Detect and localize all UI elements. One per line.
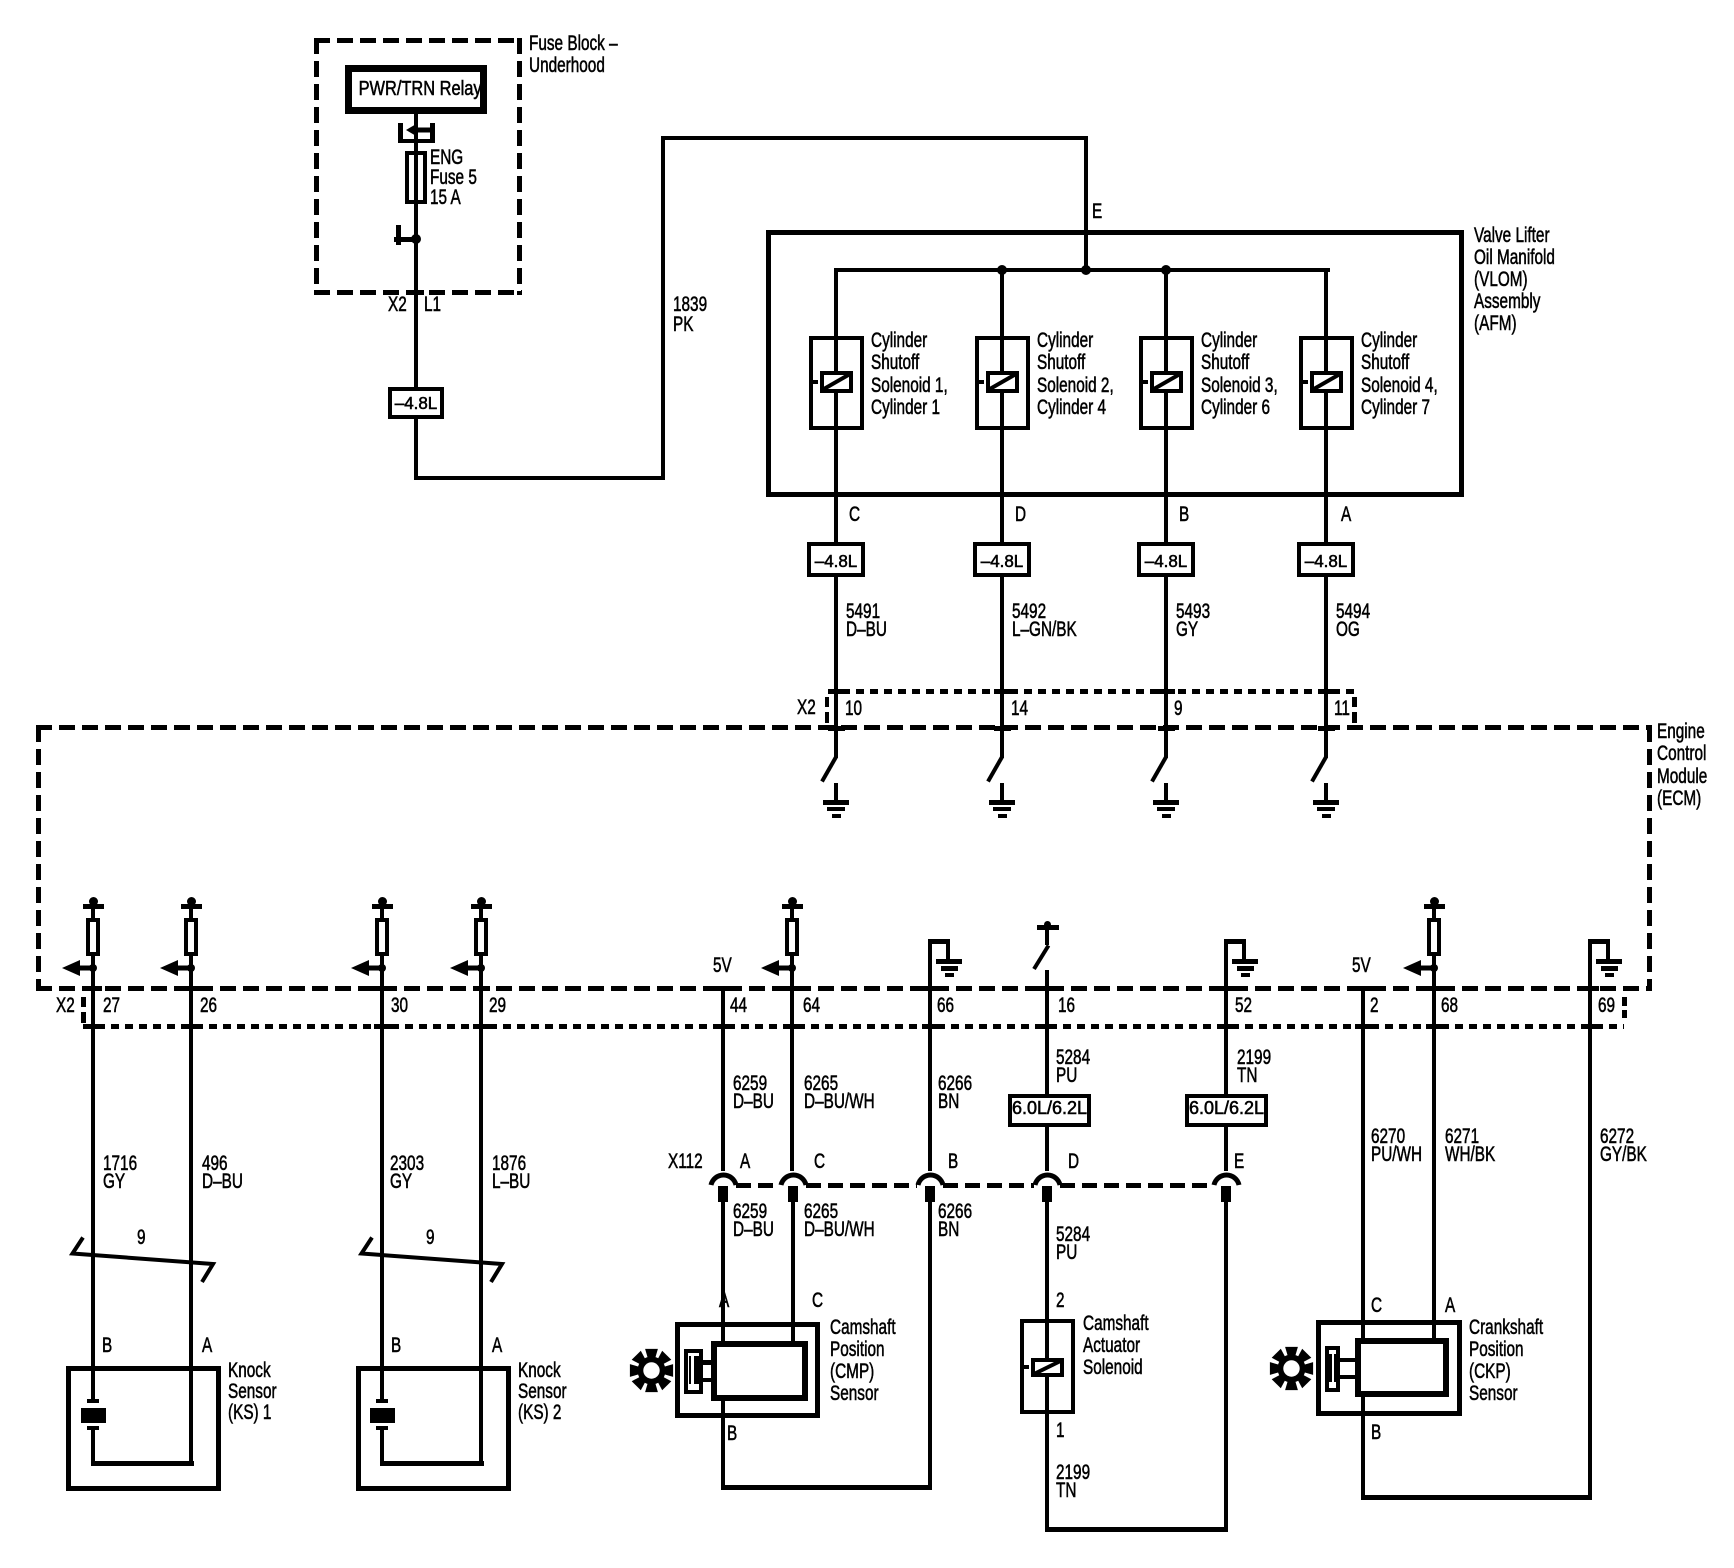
wire bus to solenoid 3 xyxy=(1164,268,1168,544)
label Knock Sensor (KS) 2 xyxy=(518,1361,567,1423)
CMP sensor body inner box xyxy=(711,1341,808,1401)
wire 496 D-BU pin26 to KS1 A xyxy=(189,955,193,1465)
Engine Control Module (ECM) dashed enclosure xyxy=(36,725,1652,730)
reluctor gear icon (CMP) xyxy=(629,1348,674,1393)
KS2 pin letters B A xyxy=(391,1335,401,1357)
wire 6266 BN pin66 to X112 B xyxy=(928,941,932,1171)
connector crossing tick xyxy=(994,689,1011,694)
piezo element KS2 xyxy=(376,1399,388,1403)
ground (ECM internal) at x=930 xyxy=(928,939,950,944)
junction + signal arrow xyxy=(62,959,94,977)
connector X112 terminal D xyxy=(1032,1169,1063,1187)
label Cylinder Shutoff Solenoid 3, Cylinder 6 xyxy=(1201,330,1278,420)
relay K PWR/TRN Relay xyxy=(345,65,488,115)
5V supply label at pin 44 xyxy=(713,955,732,977)
wire label 5493 GY xyxy=(1176,603,1210,640)
resistor (ECM pull-up) on pin wire x=93 xyxy=(89,897,98,906)
wire 6259 D-BU pin44 to X112 A xyxy=(721,988,725,1171)
connector crossing tick xyxy=(715,1024,732,1029)
wire 6265 D-BU/WH X112 C to CMP C xyxy=(791,1200,795,1343)
wire labels row (CMP circuits) xyxy=(733,1075,774,1110)
cam actuator pin 1 xyxy=(1056,1420,1065,1442)
coil symbol solenoid 3 xyxy=(1150,371,1183,393)
reluctor gear icon (CKP) xyxy=(1269,1346,1314,1391)
Knock Sensor (KS) 2 box xyxy=(356,1366,511,1491)
VLOM pin letters C D B A xyxy=(849,504,860,526)
connector crossing tick xyxy=(374,1024,391,1029)
engine code box -4.8L on circuit 5494 xyxy=(1297,542,1355,577)
wire bus to solenoid 4 xyxy=(1324,268,1328,544)
boundary crossing tick xyxy=(1318,726,1335,731)
ECM bottom boundary crossing ticks xyxy=(85,986,102,991)
ground xyxy=(823,800,849,805)
resistor (ECM pull-up) on pin wire x=792 xyxy=(788,897,797,906)
label Knock Sensor (KS) 1 xyxy=(228,1361,277,1423)
ground xyxy=(1153,800,1179,805)
connector X2 label + separator xyxy=(797,697,816,719)
wire labels 5284 PU / 2199 TN xyxy=(1056,1049,1090,1084)
wire 5284 PU X112 D to cam actuator pin 2 xyxy=(1045,1200,1049,1360)
KS1 internal wiring loop xyxy=(91,1430,95,1465)
label Engine Control Module (ECM) xyxy=(1657,721,1707,811)
wire label 5491 D–BU xyxy=(846,603,887,640)
Camshaft Actuator Solenoid box xyxy=(1020,1319,1075,1414)
wire 6259 D-BU X112 A to CMP A xyxy=(721,1200,725,1343)
label Camshaft Actuator Solenoid xyxy=(1083,1313,1149,1379)
CMP hall element xyxy=(684,1349,703,1395)
connector X112 terminal B xyxy=(915,1169,946,1187)
label Cylinder Shutoff Solenoid 1, Cylinder 1 xyxy=(871,330,948,420)
5V supply label at pin 2 xyxy=(1352,955,1371,977)
connector crossing tick xyxy=(1355,1024,1372,1029)
solenoid L2 Cylinder Shutoff Solenoid 2 box xyxy=(975,336,1030,430)
coil symbol solenoid 1 xyxy=(820,371,853,393)
wire bus to solenoid 1 xyxy=(834,268,838,544)
CKP sensor body inner box xyxy=(1355,1338,1449,1397)
label Fuse Block - Underhood xyxy=(529,33,618,77)
coil symbol cam actuator xyxy=(1031,1358,1064,1377)
wire 6270 PU/WH pin2 to CKP C xyxy=(1361,988,1365,1340)
label Cylinder Shutoff Solenoid 4, Cylinder 7 xyxy=(1361,330,1438,420)
wire CMP B to 6266 BN loop xyxy=(721,1401,725,1489)
ECM pin numbers bottom row xyxy=(103,995,120,1017)
coil symbol solenoid 4 xyxy=(1310,371,1343,393)
wire labels row (knock sensors) xyxy=(103,1155,137,1190)
wire 1839 PK routing: down, right, up, right to VLOM xyxy=(414,476,665,480)
ECM switch (cam actuator control) at pin 16 xyxy=(1037,925,1060,930)
node E at VLOM entry xyxy=(1092,201,1102,223)
label X112 xyxy=(668,1151,703,1173)
X112 pin letters xyxy=(740,1151,750,1173)
fuse F5: ENG Fuse 5 15 A xyxy=(414,153,418,240)
connector crossing tick xyxy=(1318,689,1335,694)
engine code box 6.0L/6.2L on 5284 xyxy=(1008,1094,1091,1127)
fuse block dashed enclosure: Fuse Block - Underhood xyxy=(314,38,522,43)
junction dots on bus xyxy=(997,265,1007,275)
wire 6266 BN X112 B to CMP B loop xyxy=(928,1200,932,1489)
CMP pin letters A C xyxy=(719,1290,729,1312)
connector crossing tick xyxy=(1218,1024,1235,1029)
solenoid L1 Cylinder Shutoff Solenoid 1 box xyxy=(809,336,864,430)
ECM low-side driver switch at x=1166 xyxy=(1150,755,1168,783)
KS1 pin letters B A xyxy=(102,1335,112,1357)
junction + signal arrow xyxy=(761,959,793,977)
wire 5491 D–BU from -4.8L box to ECM connector X2 pin 10 xyxy=(834,575,838,758)
connector X112 terminal C xyxy=(778,1169,809,1187)
connector crossing tick xyxy=(1582,1024,1599,1029)
wire from fuse terminal to connector X2 pin L1 xyxy=(414,239,418,389)
engine code box -4.8L on circuit 5493 xyxy=(1137,542,1195,577)
in-line connector X112 dashed line xyxy=(736,1183,780,1188)
solenoid L3 Cylinder Shutoff Solenoid 3 box xyxy=(1139,336,1194,430)
twisted pair symbol KS1 circuit 9 xyxy=(68,1233,218,1287)
junction + signal arrow xyxy=(1403,959,1435,977)
connector X2 (solenoid control) dotted line xyxy=(828,689,1360,694)
connector crossing tick xyxy=(1426,1024,1443,1029)
wire 5284 PU pin16 to X112 D xyxy=(1045,970,1049,1172)
ground (ECM internal) at x=1590 xyxy=(1588,939,1610,944)
Crankshaft Position (CKP) Sensor outer box xyxy=(1316,1320,1462,1416)
wire 1716 GY pin27 to KS1 B xyxy=(91,955,95,1400)
connector crossing tick xyxy=(473,1024,490,1029)
connector crossing tick xyxy=(784,1024,801,1029)
engine code box -4.8L on circuit 5492 xyxy=(973,542,1031,577)
resistor (ECM pull-up) on pin wire x=481 xyxy=(477,897,486,906)
CKP pin letters C A xyxy=(1371,1295,1382,1317)
wire 5493 GY from -4.8L box to ECM connector X2 pin 9 xyxy=(1164,575,1168,758)
connector X112 terminal A xyxy=(708,1169,739,1187)
wire 5494 OG from -4.8L box to ECM connector X2 pin 11 xyxy=(1324,575,1328,758)
wire 2303 GY pin30 to KS2 B xyxy=(380,955,384,1400)
junction + signal arrow xyxy=(351,959,383,977)
wire 6272 GY/BK pin69 to CKP B loop xyxy=(1588,941,1592,1499)
Camshaft Position (CMP) Sensor outer box xyxy=(675,1322,820,1418)
pin numbers 10 14 9 11 xyxy=(845,698,862,720)
ECM low-side driver switch at x=1002 xyxy=(986,755,1004,783)
boundary crossing tick xyxy=(1158,726,1175,731)
wire 1876 L-BU pin29 to KS2 A xyxy=(479,955,483,1465)
twisted pair symbol KS2 circuit 9 xyxy=(357,1233,507,1287)
label Crankshaft Position (CKP) Sensor xyxy=(1469,1317,1543,1405)
tick where wire crosses fuse block boundary xyxy=(408,290,424,295)
ground (ECM internal) at x=1226 xyxy=(1224,939,1246,944)
KS2 internal wiring loop xyxy=(380,1430,384,1465)
junction + signal arrow xyxy=(160,959,192,977)
junction + signal arrow xyxy=(450,959,482,977)
connector label X2 | L1 xyxy=(388,294,407,316)
wire label 5494 OG xyxy=(1336,603,1370,640)
boundary crossing tick xyxy=(994,726,1011,731)
relay contact output terminal symbol xyxy=(398,123,404,144)
wire label 1839 PK xyxy=(673,295,707,336)
label Valve Lifter Oil Manifold (VLOM) Assembly (AFM) xyxy=(1474,225,1555,335)
connector crossing tick xyxy=(183,1024,200,1029)
wire 2199 TN pin52 to X112 E xyxy=(1224,941,1228,1171)
resistor (ECM pull-up) on pin wire x=382 xyxy=(378,897,387,906)
connector crossing tick xyxy=(85,1024,102,1029)
connector X2 (bottom) dotted line xyxy=(83,1024,1624,1029)
Knock Sensor (KS) 1 box xyxy=(66,1366,221,1491)
boundary crossing tick xyxy=(828,726,845,731)
engine code box -4.8L on circuit 5491 xyxy=(807,542,865,577)
wire labels row (CKP circuits) xyxy=(1371,1128,1422,1163)
Valve Lifter Oil Manifold (VLOM) Assembly (AFM) enclosure xyxy=(766,230,1464,497)
wire 2199 TN from pin 1 loop to X112 E xyxy=(1045,1375,1049,1531)
wire labels below X112 xyxy=(733,1203,774,1238)
connector X2 label + separators (bottom row) xyxy=(56,995,75,1017)
CKP hall element xyxy=(1325,1346,1340,1393)
ECM driver switches to ground for solenoids xyxy=(834,726,838,758)
internal supply bus xyxy=(834,268,1330,272)
resistor (ECM pull-up) on pin wire x=191 xyxy=(187,897,196,906)
wire CKP B to 6272 GY/BK loop xyxy=(1361,1397,1365,1499)
engine code box -4.8L (feed) xyxy=(414,319,418,480)
connector crossing tick xyxy=(922,1024,939,1029)
ECM low-side driver switch at x=1326 xyxy=(1310,755,1328,783)
CKP pin B xyxy=(1371,1422,1381,1444)
terminal junction symbol below fuse xyxy=(396,225,401,245)
solenoid L4 Cylinder Shutoff Solenoid 4 box xyxy=(1299,336,1354,430)
wire 6271 WH/BK pin68 to CKP A xyxy=(1432,955,1436,1340)
wire label 2199 TN xyxy=(1056,1464,1090,1501)
CMP pin B xyxy=(727,1423,737,1445)
wire 2199 TN X112 E to cam actuator loop xyxy=(1224,1200,1228,1531)
ground xyxy=(1313,800,1339,805)
connector X112 terminal E xyxy=(1211,1169,1242,1187)
wire 5492 L–GN/BK from -4.8L box to ECM connector X2 pin 14 xyxy=(1000,575,1004,758)
connector crossing tick xyxy=(1158,689,1175,694)
label Cylinder Shutoff Solenoid 2, Cylinder 4 xyxy=(1037,330,1114,420)
resistor (ECM pull-up) on pin wire x=1434 xyxy=(1430,897,1439,906)
wire bus to solenoid 2 xyxy=(1000,268,1004,544)
cam actuator pin 2 xyxy=(1056,1290,1065,1312)
wire label 5492 L–GN/BK xyxy=(1012,603,1077,640)
engine code box 6.0L/6.2L on 2199 xyxy=(1185,1094,1268,1127)
wire relay output to fuse xyxy=(414,112,418,153)
connector crossing tick xyxy=(828,689,845,694)
label Camshaft Position (CMP) Sensor xyxy=(830,1317,896,1405)
wire to engine code box xyxy=(414,319,418,389)
piezo element KS1 xyxy=(87,1399,99,1403)
ECM low-side driver switch at x=836 xyxy=(820,755,838,783)
ground xyxy=(989,800,1015,805)
coil symbol solenoid 2 xyxy=(986,371,1019,393)
connector crossing tick xyxy=(1039,1024,1056,1029)
wire 6265 D-BU/WH pin64 to X112 C xyxy=(790,955,794,1171)
